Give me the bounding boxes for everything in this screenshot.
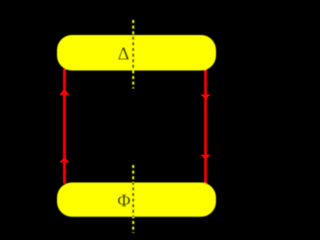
wire: dashed symmetry axis lower segment (yellow on black)	[132, 165, 134, 233]
arrowhead upper right (down)	[200, 95, 210, 100]
node Delta: top rounded box	[57, 35, 216, 71]
arrowhead upper left (up)	[59, 89, 69, 95]
wire: dashed symmetry axis upper segment (yellow on black)	[132, 20, 134, 89]
arrowhead lower left (up)	[59, 157, 69, 163]
wire: dashed axis over top box (black)	[132, 20, 134, 89]
wire: left red edge	[63, 69, 66, 184]
wire: dashed axis over bottom box (black)	[132, 165, 134, 233]
svg-text:Δ: Δ	[118, 43, 130, 63]
arrowhead lower right (down)	[200, 155, 210, 160]
wire: right red edge	[204, 69, 207, 184]
node Phi: bottom rounded box	[57, 183, 216, 217]
svg-text:Φ: Φ	[117, 190, 130, 210]
